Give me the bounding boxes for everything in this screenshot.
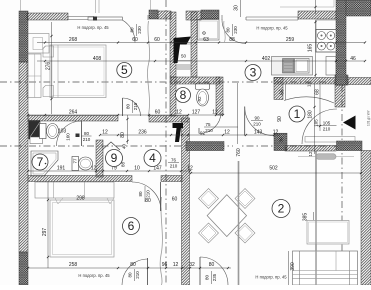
svg-text:230: 230 [233, 26, 238, 34]
svg-text:210: 210 [146, 190, 151, 198]
svg-text:76: 76 [171, 157, 177, 162]
svg-text:191: 191 [57, 166, 66, 172]
svg-text:80: 80 [126, 104, 131, 110]
svg-text:297: 297 [42, 228, 48, 237]
svg-text:4: 4 [149, 151, 156, 165]
svg-text:12: 12 [187, 166, 193, 172]
svg-text:259: 259 [286, 37, 295, 43]
svg-text:298: 298 [76, 196, 85, 202]
svg-text:12: 12 [91, 166, 97, 172]
svg-text:180: 180 [308, 110, 314, 119]
svg-text:210: 210 [83, 137, 91, 142]
svg-text:46: 46 [350, 56, 356, 62]
svg-text:385: 385 [303, 213, 309, 222]
svg-text:80: 80 [209, 262, 215, 268]
svg-text:32: 32 [189, 262, 195, 268]
svg-text:92: 92 [197, 96, 202, 102]
svg-text:50: 50 [181, 54, 187, 59]
svg-text:80: 80 [128, 272, 133, 278]
svg-text:90: 90 [277, 116, 283, 122]
svg-text:12: 12 [224, 129, 230, 135]
svg-text:210: 210 [170, 164, 178, 169]
svg-text:105: 105 [323, 121, 331, 126]
svg-text:236: 236 [138, 129, 147, 135]
svg-text:3: 3 [250, 66, 257, 80]
svg-text:160: 160 [66, 133, 71, 141]
svg-text:80: 80 [130, 262, 136, 268]
svg-text:12: 12 [273, 129, 279, 135]
svg-text:276: 276 [46, 62, 52, 71]
svg-text:68: 68 [315, 89, 321, 95]
svg-text:80: 80 [145, 198, 151, 204]
svg-text:264: 264 [69, 110, 78, 116]
svg-text:Н подогр. пр. 45: Н подогр. пр. 45 [255, 275, 287, 280]
svg-text:60: 60 [172, 197, 178, 203]
svg-text:80: 80 [226, 27, 231, 33]
svg-text:63: 63 [203, 37, 209, 43]
svg-text:80: 80 [120, 132, 126, 138]
svg-text:Ф: Ф [202, 31, 208, 35]
svg-text:402: 402 [262, 56, 271, 62]
svg-text:5: 5 [121, 63, 128, 77]
svg-text:80: 80 [205, 275, 210, 281]
svg-text:Н подогр. пр. 45: Н подогр. пр. 45 [256, 26, 288, 31]
svg-text:40: 40 [122, 144, 127, 150]
svg-text:60: 60 [132, 37, 138, 43]
svg-text:8: 8 [180, 88, 187, 102]
svg-text:30: 30 [279, 137, 284, 143]
svg-text:80: 80 [138, 191, 143, 197]
svg-text:210: 210 [133, 102, 138, 110]
svg-text:88: 88 [229, 37, 235, 43]
svg-text:60: 60 [155, 110, 161, 116]
svg-text:96: 96 [162, 262, 168, 268]
svg-text:127: 127 [192, 110, 201, 116]
svg-text:2: 2 [278, 202, 285, 216]
svg-text:105: 105 [314, 119, 319, 127]
svg-text:103: 103 [58, 129, 67, 135]
svg-text:7: 7 [37, 155, 44, 169]
svg-text:60: 60 [154, 37, 160, 43]
svg-text:210: 210 [253, 122, 261, 127]
svg-text:1: 1 [294, 107, 301, 121]
svg-text:9: 9 [111, 151, 118, 165]
svg-text:30: 30 [234, 5, 240, 11]
svg-text:210: 210 [205, 128, 213, 133]
svg-text:390: 390 [290, 262, 296, 271]
svg-text:66: 66 [280, 89, 286, 95]
svg-text:502: 502 [269, 166, 278, 172]
svg-text:80: 80 [84, 131, 90, 136]
svg-text:10: 10 [134, 166, 140, 172]
svg-text:258: 258 [69, 262, 78, 268]
svg-text:235: 235 [212, 273, 217, 281]
svg-text:210: 210 [323, 127, 331, 132]
svg-text:77: 77 [73, 158, 78, 164]
svg-text:210: 210 [135, 271, 140, 279]
svg-text:760: 760 [236, 148, 242, 157]
svg-text:12: 12 [212, 110, 218, 116]
svg-text:12: 12 [102, 129, 108, 135]
svg-text:Н подогр. пр. 45: Н подогр. пр. 45 [78, 273, 110, 278]
svg-text:268: 268 [69, 37, 78, 43]
svg-text:12: 12 [307, 82, 312, 88]
svg-text:165: 165 [308, 44, 314, 53]
svg-text:12: 12 [176, 110, 182, 116]
svg-text:75: 75 [205, 122, 211, 127]
svg-text:6: 6 [128, 219, 135, 233]
svg-text:12: 12 [308, 151, 313, 157]
svg-text:90: 90 [254, 115, 260, 120]
svg-text:230: 230 [137, 26, 142, 34]
svg-text:408: 408 [93, 56, 102, 62]
svg-text:131 до WY: 131 до WY [367, 109, 371, 126]
svg-text:80: 80 [130, 27, 135, 33]
svg-text:Н подогр. пр. 45: Н подогр. пр. 45 [77, 25, 109, 30]
svg-text:143: 143 [254, 129, 263, 135]
svg-text:12: 12 [173, 262, 179, 268]
